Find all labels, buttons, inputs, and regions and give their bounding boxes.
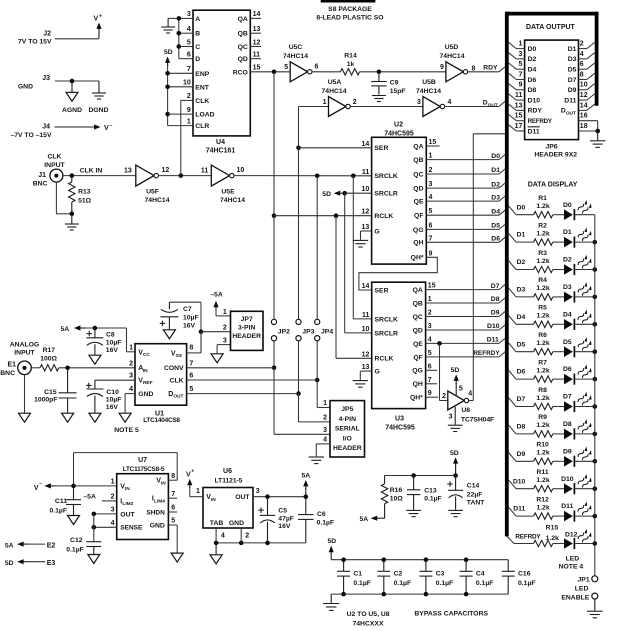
resistor R1 1.2k / LED D0 row D0 [508, 195, 595, 220]
resistor R10 1.2k / LED D9 row D9 [508, 442, 597, 467]
svg-text:U2 TO U5, U8: U2 TO U5, U8 [347, 611, 390, 618]
bus right rail [595, 12, 599, 106]
bus top rail [505, 12, 598, 16]
node E3 5D [5, 559, 55, 567]
svg-text:D0: D0 [563, 202, 572, 209]
svg-text:D0: D0 [517, 204, 526, 211]
ground (U3 G) [353, 381, 368, 388]
svg-text:5D: 5D [451, 367, 460, 374]
svg-text:1: 1 [196, 488, 200, 495]
power 5D arrow (U4 enable) [164, 49, 173, 66]
wire D11 to U8 input [440, 343, 448, 400]
svg-text:1: 1 [111, 479, 115, 486]
svg-text:J3: J3 [42, 75, 50, 82]
ground (bypass rail) [323, 594, 339, 610]
svg-text:DATA OUTPUT: DATA OUTPUT [526, 24, 576, 31]
jack J2 7V TO 15V [18, 31, 99, 46]
ground AGND (U7 GND) [171, 553, 183, 562]
svg-text:C14: C14 [467, 482, 480, 489]
ground DGND (J3) [88, 81, 108, 114]
bus data output left rail [505, 12, 509, 537]
svg-text:10µF: 10µF [106, 340, 122, 347]
capacitor C2 0.1uF [377, 557, 411, 596]
resistor R13 51ohm [69, 176, 92, 214]
svg-text:GND: GND [229, 520, 244, 527]
svg-text:1.2k: 1.2k [536, 340, 549, 347]
svg-text:C7: C7 [183, 306, 192, 313]
wire U3 QH stub [426, 383, 437, 385]
power 5A arrow (U6 OUT) [301, 472, 310, 496]
resistor R15 1.2k / LED D12 row REFRDY [507, 525, 597, 550]
svg-text:OUT: OUT [235, 494, 250, 501]
ground (U4 inputs) [161, 18, 175, 33]
svg-text:R10: R10 [536, 442, 549, 449]
svg-text:R13: R13 [78, 188, 91, 195]
wire bypass bottom rail [331, 593, 508, 595]
svg-text:IN: IN [143, 368, 148, 374]
svg-text:1.2k: 1.2k [536, 230, 549, 237]
svg-text:10: 10 [362, 326, 370, 333]
svg-text:4: 4 [323, 437, 327, 444]
svg-text:C1: C1 [353, 570, 362, 577]
JP5 pin numbers [323, 400, 327, 443]
svg-text:16V: 16V [183, 322, 196, 329]
svg-text:U4: U4 [216, 139, 225, 146]
svg-text:U6: U6 [223, 468, 232, 475]
svg-text:CONV: CONV [164, 365, 184, 372]
wire U2 QF = D4 to data bus [426, 208, 506, 215]
svg-text:12: 12 [162, 167, 170, 174]
svg-text:1.2k: 1.2k [536, 203, 549, 210]
svg-text:U5C: U5C [289, 44, 303, 51]
wire U5C out to R14 [312, 71, 340, 73]
svg-text:R12: R12 [536, 496, 549, 503]
wire 5A to VCC [85, 326, 135, 352]
svg-text:0.1µF: 0.1µF [317, 520, 335, 527]
svg-text:JP7: JP7 [241, 316, 253, 323]
svg-text:U8: U8 [461, 407, 470, 414]
header JP7 3-PIN [231, 311, 264, 350]
svg-text:QA: QA [413, 287, 423, 294]
svg-text:C16: C16 [518, 570, 531, 577]
svg-text:6: 6 [428, 363, 432, 370]
svg-text:0.1µF: 0.1µF [353, 580, 371, 587]
svg-text:12: 12 [580, 92, 588, 99]
label LED NOTE 4 [559, 555, 584, 570]
svg-text:CLK: CLK [170, 378, 184, 385]
svg-text:D3: D3 [517, 287, 526, 294]
shift register U3 74HC595 [372, 282, 426, 431]
svg-text:QB: QB [413, 157, 423, 164]
svg-text:1.2k: 1.2k [546, 535, 559, 542]
svg-text:6: 6 [189, 373, 193, 380]
svg-text:3: 3 [129, 373, 133, 380]
svg-text:2: 2 [245, 532, 249, 539]
svg-text:2: 2 [323, 415, 327, 422]
wire JP4/CLK chain to JP5 pin 1 [317, 380, 330, 408]
svg-text:74HC161: 74HC161 [206, 147, 236, 154]
ground (U8) [448, 407, 463, 432]
svg-text:5D: 5D [5, 560, 14, 567]
svg-text:13: 13 [124, 167, 132, 174]
svg-text:16: 16 [580, 113, 588, 120]
wire BNC shield (E1) [24, 375, 26, 413]
svg-text:JP4: JP4 [321, 328, 333, 335]
svg-text:QA: QA [413, 143, 423, 150]
svg-text:RCO: RCO [233, 69, 248, 76]
ADC U1 LTC1404CS8 [135, 344, 187, 424]
svg-text:10: 10 [183, 80, 191, 87]
svg-text:NOTE 4: NOTE 4 [559, 564, 584, 571]
svg-text:D4: D4 [491, 208, 500, 215]
wire U3 QG stub [426, 369, 437, 371]
svg-text:74HC14: 74HC14 [416, 88, 441, 95]
svg-text:QC: QC [413, 314, 423, 321]
svg-text:1.2k: 1.2k [536, 477, 549, 484]
wire U6 GND pin 2 [241, 528, 249, 543]
svg-text:4: 4 [187, 26, 191, 33]
svg-text:4: 4 [580, 51, 584, 58]
svg-text:5A: 5A [60, 326, 69, 333]
svg-text:REFRDY: REFRDY [515, 534, 541, 541]
svg-text:9: 9 [187, 107, 191, 114]
wire 5D rail [385, 473, 458, 478]
wire CLK IN [63, 167, 136, 178]
svg-text:INPUT: INPUT [44, 162, 65, 169]
svg-text:74HC14: 74HC14 [283, 53, 308, 60]
power 5D arrow (bypass rail) [327, 538, 336, 560]
svg-text:74HC595: 74HC595 [385, 424, 415, 431]
svg-text:6: 6 [171, 505, 175, 512]
svg-text:5A: 5A [5, 543, 14, 550]
svg-text:RCLK: RCLK [374, 213, 393, 220]
svg-text:TANT: TANT [467, 500, 485, 507]
svg-text:D0: D0 [528, 46, 537, 53]
svg-text:D6: D6 [528, 77, 537, 84]
svg-text:QD: QD [238, 56, 248, 63]
svg-text:BYPASS CAPACITORS: BYPASS CAPACITORS [414, 611, 488, 618]
jumper JP2 [271, 319, 290, 341]
wire V+ to U6 VIN [190, 487, 203, 497]
svg-text:D3: D3 [568, 56, 577, 63]
svg-text:D1: D1 [568, 46, 577, 53]
wire U3 QA = D7 to data bus [426, 283, 507, 290]
svg-text:–: – [110, 123, 113, 129]
svg-text:15: 15 [253, 65, 261, 72]
svg-text:15: 15 [429, 139, 437, 146]
svg-text:QG: QG [413, 227, 424, 234]
U3 pin numbers [362, 283, 436, 398]
svg-text:0.1µF: 0.1µF [436, 580, 454, 587]
svg-text:0.1µF: 0.1µF [518, 580, 536, 587]
power -5A arrow (JP7) [210, 291, 223, 309]
svg-text:10: 10 [580, 82, 588, 89]
jumper JP1 LED ENABLE [561, 576, 597, 602]
svg-text:D2: D2 [563, 257, 572, 264]
svg-text:G: G [374, 228, 379, 235]
svg-text:13: 13 [362, 224, 370, 231]
svg-text:G: G [375, 369, 380, 376]
svg-text:4: 4 [129, 386, 133, 393]
svg-text:11: 11 [362, 169, 370, 176]
header JP5 4-PIN SERIAL I/O [330, 401, 365, 457]
ground AGND (J3) [62, 81, 82, 114]
svg-text:QC: QC [413, 171, 423, 178]
svg-text:V: V [104, 125, 109, 132]
wire JP3/DOUT chain to JP5 pin 2 [299, 394, 331, 422]
wire SRCLK chain to JP4 [316, 176, 318, 319]
svg-text:JP6: JP6 [545, 143, 557, 150]
wire CLK riser to U4 CLK pin 2 [181, 100, 193, 175]
resistor R17 100ohm [31, 347, 58, 371]
svg-text:REFRDY: REFRDY [528, 118, 553, 125]
svg-text:SRCLK: SRCLK [374, 173, 398, 180]
svg-text:LED: LED [575, 586, 589, 593]
svg-text:JP1: JP1 [578, 577, 590, 584]
svg-text:QA: QA [238, 16, 248, 23]
U1 pin numbers [129, 344, 193, 393]
JP7 pin numbers [223, 309, 227, 345]
svg-text:CLK: CLK [48, 153, 62, 160]
U2 pin numbers [362, 139, 437, 257]
power 5A arrow (U1 VCC) [60, 325, 85, 333]
wire U3 QE = D11 to data bus [426, 337, 507, 346]
svg-text:HEADER: HEADER [333, 445, 362, 452]
svg-text:5D: 5D [164, 49, 173, 56]
svg-text:74HC14: 74HC14 [220, 197, 245, 204]
wire U5A input from SER chain [299, 106, 329, 108]
svg-text:3: 3 [111, 507, 115, 514]
capacitor C1 0.1uF [337, 557, 371, 596]
wire U2 QH* to U3 SER [359, 257, 437, 290]
label bypass capacitors [347, 611, 489, 628]
svg-text:ENABLE: ENABLE [561, 595, 589, 602]
svg-text:7: 7 [518, 71, 522, 78]
svg-text:BNC: BNC [33, 181, 48, 188]
svg-text:REFRDY: REFRDY [473, 350, 500, 357]
wire CLK [187, 379, 318, 381]
svg-text:INPUT: INPUT [14, 350, 35, 357]
svg-text:A: A [195, 16, 200, 23]
svg-text:CLK: CLK [195, 98, 209, 105]
svg-text:RDY: RDY [483, 65, 498, 72]
svg-text:1: 1 [323, 400, 327, 407]
svg-text:QE: QE [414, 199, 424, 206]
svg-text:0.1µF: 0.1µF [49, 507, 67, 514]
wire JP2/CONV chain to JP5 pin 3 [274, 368, 330, 435]
jack J3 GND [18, 75, 99, 90]
svg-text:1.2k: 1.2k [536, 258, 549, 265]
wire U3 G to ground [360, 371, 371, 380]
svg-text:D6: D6 [563, 366, 572, 373]
svg-text:R1: R1 [538, 195, 547, 202]
svg-text:14: 14 [362, 141, 370, 148]
svg-text:D: D [195, 56, 200, 63]
svg-text:12: 12 [253, 39, 261, 46]
svg-text:ANALOG: ANALOG [10, 342, 39, 349]
svg-text:D10: D10 [561, 476, 574, 483]
svg-text:14: 14 [580, 102, 588, 109]
svg-text:D11: D11 [487, 337, 499, 344]
svg-text:1.2k: 1.2k [536, 313, 549, 320]
svg-text:1.2k: 1.2k [536, 504, 549, 511]
wire RCLK chain to U3 [334, 213, 372, 358]
svg-text:D11: D11 [513, 506, 525, 513]
wire SRCLR net [342, 191, 371, 333]
svg-text:4: 4 [429, 194, 433, 201]
capacitor C11 0.1uF [49, 486, 81, 515]
jumper JP4 [315, 319, 334, 341]
svg-text:15: 15 [428, 283, 436, 290]
svg-text:E3: E3 [47, 560, 56, 567]
svg-text:3: 3 [518, 51, 522, 58]
svg-text:D4: D4 [517, 314, 526, 321]
wire DOUT to bus [445, 100, 506, 109]
svg-text:R8: R8 [538, 387, 547, 394]
capacitor C4 0.1uF [460, 557, 494, 596]
svg-text:LTC1404CS8: LTC1404CS8 [143, 417, 180, 424]
svg-text:HEADER: HEADER [232, 333, 261, 340]
ground AGND (U1) [119, 413, 131, 422]
svg-text:D10: D10 [487, 323, 500, 330]
svg-text:9: 9 [428, 390, 432, 397]
wire U3 QC = D9 to data bus [426, 310, 507, 317]
svg-text:JP3: JP3 [302, 328, 314, 335]
wire JP4 to CLK [315, 341, 320, 383]
svg-text:–7V TO –15V: –7V TO –15V [10, 132, 52, 139]
svg-text:D4: D4 [528, 67, 537, 74]
regulator U7 LTC1175CS8-5 [117, 457, 169, 540]
svg-text:QD: QD [413, 186, 423, 193]
capacitor C6 0.1uF [298, 497, 334, 543]
svg-text:LED: LED [566, 555, 580, 562]
svg-text:11: 11 [362, 312, 370, 319]
svg-text:D7: D7 [568, 77, 577, 84]
jack J4 -7V TO -15V [10, 124, 52, 139]
svg-text:0.1µF: 0.1µF [476, 580, 494, 587]
svg-text:I/O: I/O [343, 435, 352, 442]
wire U7 ILIM2 stub [102, 500, 117, 502]
svg-text:1.2k: 1.2k [536, 422, 549, 429]
svg-text:AGND: AGND [62, 107, 82, 114]
wire RCO chain down to U2 RCLK / JP2 [272, 72, 277, 319]
svg-text:1000pF: 1000pF [34, 397, 57, 404]
svg-text:18: 18 [580, 123, 588, 130]
resistor R3 1.2k / LED D2 row D2 [508, 250, 597, 275]
svg-text:D8: D8 [563, 421, 572, 428]
resistor R11 1.2k / LED D10 row D10 [508, 469, 597, 494]
svg-text:11: 11 [253, 52, 261, 59]
svg-text:J1: J1 [38, 172, 46, 179]
svg-text:14: 14 [362, 283, 370, 290]
svg-text:TC7SH04F: TC7SH04F [461, 416, 494, 423]
svg-text:D11: D11 [528, 128, 540, 135]
svg-text:12: 12 [362, 351, 370, 358]
svg-text:2: 2 [223, 325, 227, 332]
svg-text:R7: R7 [538, 359, 547, 366]
svg-text:8: 8 [189, 344, 193, 351]
ground (C13) [406, 510, 421, 516]
wire LED cathode rail [594, 215, 596, 576]
resistor R9 1.2k / LED D8 row D8 [508, 414, 597, 439]
svg-text:JP2: JP2 [278, 328, 290, 335]
ground AGND (C10) [89, 413, 101, 422]
svg-text:5: 5 [459, 386, 463, 393]
ground AGND (C12) [88, 555, 100, 564]
svg-text:2: 2 [353, 99, 357, 106]
svg-text:C8: C8 [106, 332, 115, 339]
svg-text:16V: 16V [278, 523, 291, 530]
wire JP3 to DOUT [296, 341, 301, 396]
svg-text:U3: U3 [395, 415, 404, 422]
svg-text:8-LEAD PLASTIC SO: 8-LEAD PLASTIC SO [316, 14, 383, 21]
wire BNC shield to R13 [56, 182, 74, 216]
svg-text:1.2k: 1.2k [536, 285, 549, 292]
ground (R13/J1) [65, 214, 79, 230]
svg-text:3: 3 [429, 181, 433, 188]
label NOTE 5 [114, 427, 139, 434]
svg-text:7: 7 [189, 360, 193, 367]
JP6 right pin stubs and numbers [579, 41, 595, 130]
svg-text:QE: QE [413, 341, 423, 348]
ground (C9) [372, 96, 386, 102]
svg-text:V: V [34, 485, 39, 492]
wire JP2 to CONV [272, 341, 277, 370]
svg-text:1: 1 [518, 41, 522, 48]
svg-text:5A: 5A [301, 472, 310, 479]
svg-text:B: B [195, 31, 200, 38]
svg-text:D11: D11 [561, 503, 573, 510]
svg-text:QB: QB [238, 31, 248, 38]
svg-text:3: 3 [223, 338, 227, 345]
svg-text:–5A: –5A [210, 291, 223, 298]
wire SRCLK chain to U3 SRCLK [353, 176, 371, 319]
svg-text:9: 9 [429, 250, 433, 257]
wire U3 QF = REFRDY to data bus [426, 350, 507, 357]
label DATA DISPLAY [528, 182, 578, 189]
svg-text:+: + [99, 14, 102, 20]
capacitor C3 0.1uF [419, 557, 453, 596]
op-amp U5B 74HC14 inverter [416, 79, 451, 117]
svg-text:9: 9 [518, 82, 522, 89]
svg-text:SRCLK: SRCLK [375, 316, 399, 323]
svg-text:10: 10 [362, 186, 370, 193]
ground AGND (C15) [62, 413, 74, 422]
svg-text:5D: 5D [322, 191, 331, 198]
svg-text:D6: D6 [491, 236, 500, 243]
svg-text:R5: R5 [538, 305, 547, 312]
svg-text:S8 PACKAGE: S8 PACKAGE [328, 6, 372, 13]
svg-text:6: 6 [429, 222, 433, 229]
svg-text:DATA DISPLAY: DATA DISPLAY [528, 182, 578, 189]
svg-text:2: 2 [429, 167, 433, 174]
svg-text:ENT: ENT [195, 84, 209, 91]
svg-text:1: 1 [223, 309, 227, 316]
svg-text:QD: QD [413, 327, 423, 334]
svg-text:D2: D2 [491, 181, 500, 188]
svg-text:C15: C15 [44, 389, 57, 396]
svg-text:QG: QG [412, 368, 423, 375]
resistor R16 10ohm [381, 476, 403, 519]
wire JP7 pin 2 (VSS) [199, 329, 231, 352]
wire JP6 pins 16/18 to ground [579, 121, 601, 141]
wire U3 QB = D8 to data bus [426, 296, 507, 303]
svg-text:1: 1 [428, 296, 432, 303]
power 5A arrow (R16) [359, 516, 384, 524]
svg-text:QH*: QH* [410, 395, 423, 402]
svg-text:1: 1 [129, 344, 133, 351]
svg-text:R14: R14 [344, 53, 357, 60]
